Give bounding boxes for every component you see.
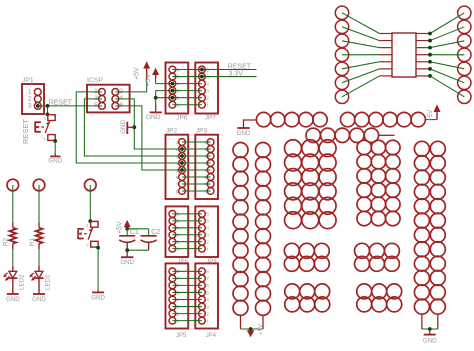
- svg-text:2: 2: [206, 311, 209, 316]
- wire JP6.4-JP7.4 (+5V): [156, 82, 202, 86]
- svg-text:2: 2: [86, 243, 89, 248]
- ground GND (right rails): [423, 329, 437, 345]
- svg-text:GND: GND: [91, 294, 105, 301]
- resistor R1 + LED1 branch with pad and ground: [29, 179, 52, 303]
- wire ICSP.1 to JP2.4: [76, 92, 182, 163]
- svg-text:3: 3: [206, 88, 209, 93]
- svg-text:JP5: JP5: [176, 333, 187, 339]
- ground GND (below C1): [120, 250, 134, 266]
- pad row (top bus row): [256, 112, 425, 126]
- wires (bow-tie fan-out): [342, 13, 464, 97]
- svg-text:GND: GND: [6, 296, 20, 303]
- resistor R2 + LED2 branch with pad and ground: [3, 179, 26, 303]
- connector JP2: [166, 127, 189, 199]
- pad column (bow-tie connector, left): [335, 6, 348, 103]
- pad column rail (right GND rail B): [430, 141, 445, 314]
- wires JP8-JP9 rows: [172, 214, 202, 249]
- svg-text:GND: GND: [48, 157, 62, 164]
- connector body (bow-tie center rectangle): [392, 33, 416, 77]
- svg-text:JP7: JP7: [205, 115, 217, 122]
- connector JP3: [195, 127, 218, 199]
- pad + wire to S1: [85, 179, 97, 221]
- capacitor C1: [119, 229, 139, 250]
- wire JP6.1-JP7.1: [172, 104, 202, 106]
- leads (bow-tie connector): [380, 34, 431, 76]
- svg-text:RESET: RESET: [49, 100, 73, 107]
- wire JP6.3-JP7.3 (GND): [171, 89, 202, 93]
- svg-text:1: 1: [206, 318, 209, 323]
- svg-text:3.3V: 3.3V: [229, 70, 244, 77]
- supply +5V arrow (JP6.4): [145, 68, 159, 87]
- wires JP2-JP3 rows 1-8: [180, 142, 211, 191]
- wires JP5-JP4 rows: [172, 271, 202, 320]
- svg-text:GND: GND: [423, 338, 437, 345]
- wire +5V to C1/C2 tops: [125, 227, 148, 236]
- svg-text:3: 3: [206, 233, 209, 238]
- svg-text:+5V: +5V: [117, 221, 124, 234]
- svg-text:JP6: JP6: [176, 115, 188, 122]
- svg-text:5: 5: [206, 290, 209, 295]
- svg-text:7: 7: [206, 276, 209, 281]
- wire JP6.2-JP7.2 (GND): [156, 96, 202, 100]
- pad column rail (right GND rail A): [414, 141, 429, 314]
- svg-text:JP4: JP4: [206, 333, 217, 339]
- supply +5V arrow (top bus row right): [425, 104, 440, 121]
- wire ICSP.6 to JP2.5: [115, 106, 182, 170]
- ground GND (sideways, on vertical wire): [120, 120, 135, 134]
- svg-text:2: 2: [206, 240, 209, 245]
- svg-text:4: 4: [43, 136, 46, 141]
- connector JP8: [166, 206, 189, 265]
- svg-text:R1: R1: [29, 238, 36, 247]
- connector JP4: [195, 263, 218, 338]
- supply +5V arrow (left rails, pointing down): [247, 323, 265, 337]
- svg-text:1: 1: [28, 89, 32, 96]
- connector JP6: [166, 63, 189, 122]
- ground GND (below S2): [48, 156, 62, 164]
- svg-text:JP2: JP2: [166, 127, 178, 134]
- pad column rail (left +5V rail B): [256, 143, 271, 316]
- svg-text:+5V: +5V: [427, 109, 434, 121]
- wire RESET (JP1.3 - ICSP.5, branch to pushbutton): [36, 100, 102, 115]
- svg-text:+5V: +5V: [134, 67, 141, 80]
- wire ICSP.3 to JP2.3: [84, 99, 182, 156]
- supply +5V arrow (capacitors): [117, 220, 131, 234]
- svg-text:JP3: JP3: [196, 127, 208, 134]
- svg-text:R2: R2: [3, 238, 10, 247]
- svg-text:2: 2: [206, 96, 209, 101]
- svg-text:1: 1: [206, 246, 209, 251]
- connector JP1: [22, 77, 44, 114]
- wire ICSP.2 to +5V: [115, 79, 146, 92]
- label S1 (vertical): [77, 228, 84, 237]
- wire ICSP.4 to JP2.2 (GND tap): [115, 99, 182, 149]
- svg-text:LED2: LED2: [18, 274, 25, 290]
- svg-text:1: 1: [86, 223, 89, 228]
- ground GND (top bus row left): [237, 120, 257, 137]
- svg-text:C1: C1: [130, 229, 139, 236]
- wires right rails to GND: [422, 314, 438, 331]
- wire S2 to GND: [54, 141, 56, 156]
- svg-text:JP1: JP1: [22, 77, 34, 84]
- svg-text:4: 4: [206, 81, 209, 86]
- pushbutton S1: [78, 219, 100, 249]
- capacitor C2: [141, 229, 161, 250]
- svg-text:5: 5: [94, 102, 98, 109]
- pad column rail (left +5V rail A): [233, 143, 248, 316]
- pad block (left prototyping area): [284, 140, 336, 312]
- wires left rails to +5V: [241, 315, 264, 331]
- svg-text:C2: C2: [151, 229, 160, 236]
- pad row (offset second row) with stub lead: [306, 128, 395, 142]
- wire JP6.5-JP7.5 net 3.3V + label: [172, 70, 256, 78]
- svg-text:6: 6: [206, 212, 209, 217]
- svg-text:GND: GND: [32, 296, 46, 303]
- svg-text:ICSP: ICSP: [87, 77, 103, 84]
- svg-text:4: 4: [206, 226, 209, 231]
- svg-text:3: 3: [43, 116, 46, 121]
- svg-text:4: 4: [206, 297, 209, 302]
- svg-text:+5V: +5V: [145, 74, 152, 87]
- svg-text:3: 3: [206, 304, 209, 309]
- pad block (right prototyping area): [355, 140, 402, 312]
- pad column (bow-tie connector, right): [458, 6, 471, 103]
- wire JP6.6-JP7.6 net RESET + label: [172, 64, 256, 72]
- svg-text:RESET: RESET: [21, 119, 30, 144]
- supply +5V arrow (ICSP): [134, 61, 151, 80]
- svg-text:3: 3: [28, 103, 32, 110]
- connector JP5: [166, 263, 189, 338]
- svg-text:GND: GND: [146, 114, 161, 121]
- svg-text:GND: GND: [237, 130, 251, 137]
- label RESET (vertical): [21, 119, 30, 144]
- svg-text:8: 8: [206, 269, 209, 274]
- svg-text:LED1: LED1: [45, 274, 52, 290]
- connector ICSP: [87, 77, 130, 112]
- svg-text:2: 2: [28, 96, 32, 103]
- svg-text:6: 6: [206, 283, 209, 288]
- svg-text:+5V: +5V: [258, 323, 265, 335]
- pushbutton S2 (reset button): [35, 113, 57, 143]
- svg-text:GND: GND: [120, 259, 134, 266]
- ground GND (JP6 rows 3+2): [146, 91, 172, 121]
- connector JP9: [195, 206, 218, 265]
- ground GND (below S1): [91, 292, 105, 301]
- svg-text:1: 1: [206, 103, 209, 108]
- svg-text:S1: S1: [77, 228, 84, 237]
- svg-text:5: 5: [206, 219, 209, 224]
- wire S1 to GND: [97, 248, 99, 292]
- connector JP7: [195, 63, 218, 122]
- svg-text:GND: GND: [120, 120, 127, 134]
- wire C1/C2 bottoms: [125, 248, 148, 252]
